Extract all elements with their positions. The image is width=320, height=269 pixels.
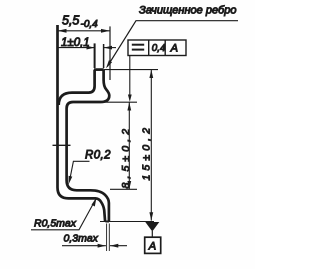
parallelism symbol — [132, 44, 144, 46]
extension line from lip edge (top face, 15 dim) — [104, 69, 158, 71]
lip top edge (cleaned edge) — [94, 68, 104, 71]
svg-text:R0,2: R0,2 — [85, 150, 111, 162]
profile lip outer face and mid-section bottom face into inner wall face — [67, 70, 110, 222]
R0,2 leader shelf — [70, 161, 90, 181]
tick mark on left wall — [53, 144, 71, 146]
dimension 15±0,2 — [150, 70, 152, 221]
svg-text:Зачищенное ребро: Зачищенное ребро — [139, 5, 236, 17]
extension line above lip right face — [103, 44, 105, 68]
svg-text:0,4: 0,4 — [152, 43, 166, 54]
extension line right of 5,5 — [109, 26, 111, 80]
svg-text:R0,5max: R0,5max — [34, 218, 77, 230]
svg-text:-0,4: -0,4 — [81, 19, 99, 30]
profile outer contour — [58, 25, 106, 222]
dimension line 5,5 — [58, 30, 111, 32]
datum box — [145, 237, 161, 253]
extension line inner top surface (8,5 dim) — [102, 101, 137, 103]
extension line above lip left face — [94, 43, 96, 68]
svg-text:A: A — [148, 241, 156, 253]
dimension line 1±0,1 right part with inward arrow — [104, 47, 116, 49]
datum stem — [151, 231, 153, 237]
svg-text:A: A — [170, 43, 178, 55]
bottom tip edge — [105, 221, 109, 223]
extension line inner bottom surface (8,5 dim) — [110, 188, 137, 190]
R0,5max leader shelf — [31, 200, 95, 230]
svg-text:5,5: 5,5 — [62, 14, 79, 28]
dimension 8,5±0,2 — [128, 102, 130, 189]
svg-text:15±0,2: 15±0,2 — [140, 124, 152, 181]
svg-text:0,3max: 0,3max — [64, 233, 99, 245]
svg-text:8,5±0,2: 8,5±0,2 — [120, 125, 132, 189]
0,3max dimension arrows — [62, 245, 106, 247]
datum surface extension line — [100, 221, 154, 223]
dimension line 1±0,1 left part with inward arrow — [59, 47, 95, 49]
feature control frame (parallelism 0,4 A) — [128, 40, 186, 56]
leader shelf under label — [107, 21, 238, 67]
R0,2 arrowhead — [69, 176, 73, 185]
R0,5max arrowhead — [92, 198, 97, 207]
profile inner contour — [59, 70, 95, 105]
frame leader down to surface — [129, 56, 131, 100]
leader arrowhead at lip edge — [106, 60, 112, 68]
0,3max extension lines — [106, 224, 108, 252]
datum triangle (filled) — [145, 222, 159, 232]
